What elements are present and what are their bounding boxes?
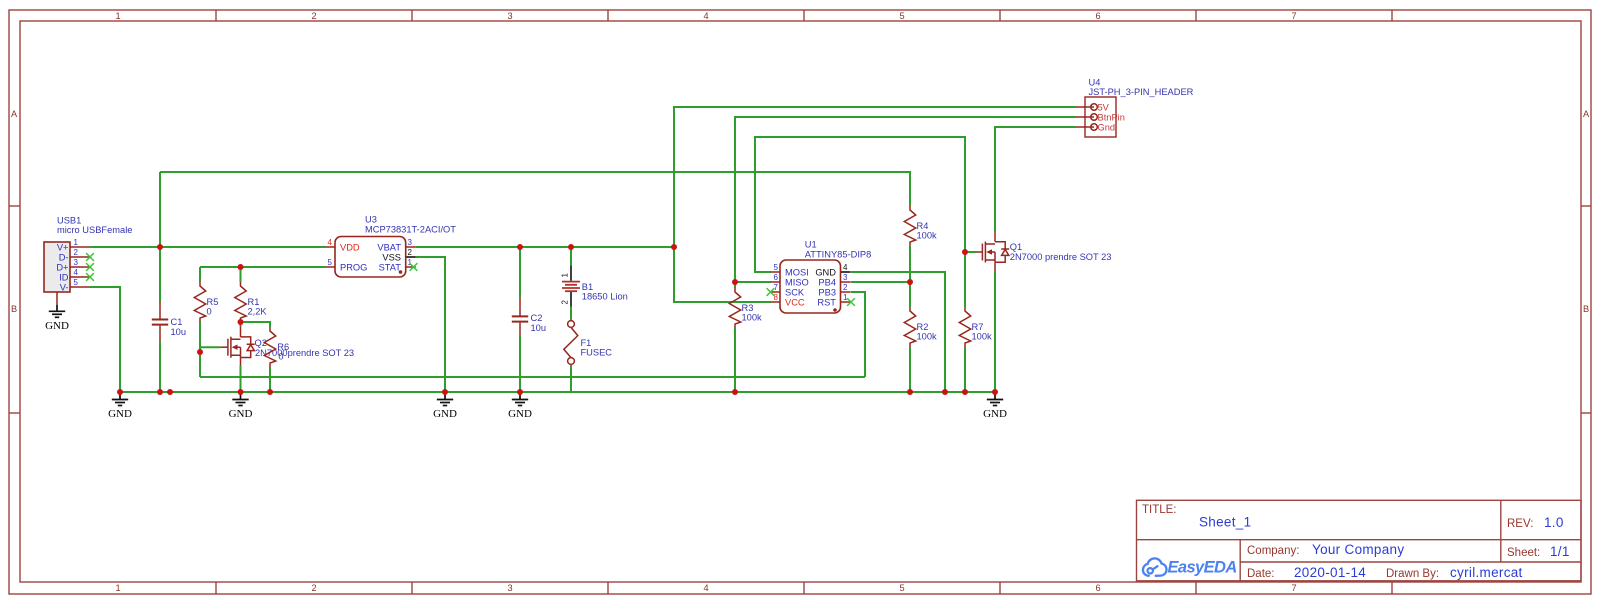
junction Q2 gate node — [197, 349, 203, 355]
ground bus x445 — [433, 393, 457, 421]
svg-text:1: 1 — [843, 293, 848, 302]
column ticks bottom — [216, 582, 1392, 594]
junction bus x945 — [942, 389, 948, 395]
column ticks top — [216, 10, 1392, 21]
svg-text:2: 2 — [74, 248, 79, 257]
svg-text:1: 1 — [561, 273, 570, 278]
junction Q1 gate node — [962, 249, 968, 255]
no-connect USB pin 2 — [86, 253, 94, 261]
junction bus x270 — [267, 389, 273, 395]
wire 5V rail U4 — [674, 107, 1076, 302]
no-connect USB pin 3 — [86, 263, 94, 271]
resistor R1 — [235, 282, 268, 322]
svg-text:U1: U1 — [805, 240, 817, 250]
svg-text:Your Company: Your Company — [1312, 542, 1404, 557]
resistor R4 — [904, 206, 937, 246]
wire R3 bottom to ground bus — [734, 328, 736, 392]
svg-text:TITLE:: TITLE: — [1142, 504, 1177, 516]
svg-text:B1: B1 — [582, 282, 593, 292]
svg-text:R5: R5 — [207, 297, 219, 307]
svg-text:1: 1 — [115, 11, 120, 21]
svg-text:MCP73831T-2ACI/OT: MCP73831T-2ACI/OT — [365, 225, 456, 235]
junction C1 top — [157, 244, 163, 250]
wire USB V- to ground bus — [90, 287, 120, 392]
resistor R7 — [959, 307, 992, 347]
title block texts — [1142, 504, 1570, 580]
svg-text:PROG: PROG — [340, 263, 367, 273]
junction bus x170 — [167, 389, 173, 395]
wire R4 bottom to R2 top — [909, 246, 911, 307]
wire Gnd rail U4 to Q1 drain — [995, 127, 1076, 232]
wire R5 top — [199, 267, 201, 282]
wire Q1 source to ground bus — [994, 271, 996, 392]
svg-text:5: 5 — [74, 278, 79, 287]
junction C2 top — [517, 244, 523, 250]
junction bus x120 — [117, 389, 123, 395]
svg-text:2: 2 — [311, 583, 316, 593]
svg-text:7: 7 — [1291, 11, 1296, 21]
junction dots — [117, 244, 998, 395]
svg-text:7: 7 — [774, 283, 779, 292]
wire R5 bottom to y377 — [199, 322, 201, 377]
svg-text:R3: R3 — [742, 303, 754, 313]
svg-text:U3: U3 — [365, 215, 377, 225]
svg-text:SCK: SCK — [785, 288, 805, 298]
svg-text:3: 3 — [507, 583, 512, 593]
svg-text:4: 4 — [703, 11, 708, 21]
junction bus x240 — [238, 389, 244, 395]
wire C1 column — [159, 172, 161, 302]
svg-text:F1: F1 — [581, 338, 592, 348]
svg-text:2: 2 — [561, 300, 570, 305]
wire VBAT rail — [416, 246, 674, 248]
svg-text:A: A — [1583, 109, 1590, 119]
junction bus x910 — [907, 389, 913, 395]
svg-text:100k: 100k — [742, 313, 763, 323]
wire B1 top — [570, 247, 572, 265]
svg-text:Drawn By:: Drawn By: — [1386, 568, 1439, 580]
svg-text:B: B — [1583, 304, 1589, 314]
title block grid — [1137, 500, 1582, 581]
resistor R5 — [194, 282, 218, 322]
junction bus x445 — [442, 389, 448, 395]
svg-text:100k: 100k — [972, 332, 993, 342]
junction Q2 drain node — [238, 319, 244, 325]
svg-text:JST-PH_3-PIN_HEADER: JST-PH_3-PIN_HEADER — [1089, 87, 1194, 97]
transistor Q2 — [220, 327, 354, 366]
junction R3-MISO node — [732, 279, 738, 285]
svg-text:R6: R6 — [277, 342, 289, 352]
svg-text:2: 2 — [408, 248, 413, 257]
wire F1 to ground bus — [570, 366, 572, 392]
wire R7 bottom to ground bus — [964, 347, 966, 392]
junction bus x520 — [517, 389, 523, 395]
ground bus x120 — [108, 393, 132, 421]
wire R1 top — [240, 267, 242, 282]
svg-text:USB1: USB1 — [57, 216, 81, 226]
svg-text:micro USBFemale: micro USBFemale — [57, 225, 132, 235]
wire C2 top — [519, 247, 521, 297]
svg-text:5: 5 — [899, 11, 904, 21]
svg-text:V+: V+ — [57, 243, 69, 253]
svg-text:0: 0 — [207, 307, 212, 317]
svg-text:VBAT: VBAT — [377, 243, 401, 253]
wire Q1 gate tap — [965, 251, 977, 253]
junction bus x160 — [157, 389, 163, 395]
wire R2 bottom to ground bus — [909, 347, 911, 392]
svg-text:1: 1 — [115, 583, 120, 593]
svg-text:VDD: VDD — [340, 243, 360, 253]
column numbers top — [115, 11, 1296, 21]
wire V+ rail USB to VDD — [90, 246, 325, 248]
svg-text:5V: 5V — [1098, 103, 1110, 113]
svg-text:100k: 100k — [917, 332, 938, 342]
wire BtnPin rail U4 — [735, 117, 1076, 288]
junction bus x735 — [732, 389, 738, 395]
resistor R6 — [264, 327, 289, 367]
wire ground bus — [120, 391, 995, 393]
svg-text:R4: R4 — [917, 221, 929, 231]
svg-text:0: 0 — [278, 352, 283, 362]
battery B1 — [561, 265, 628, 306]
svg-text:EasyEDA: EasyEDA — [1168, 559, 1237, 577]
capacitor C1 — [152, 302, 186, 342]
svg-text:V-: V- — [60, 283, 69, 293]
svg-text:C1: C1 — [171, 317, 183, 327]
svg-text:ATTINY85-DIP8: ATTINY85-DIP8 — [805, 250, 871, 260]
svg-text:R2: R2 — [917, 322, 929, 332]
svg-text:4: 4 — [74, 268, 79, 277]
svg-text:Gnd: Gnd — [1098, 123, 1116, 133]
svg-text:6: 6 — [1095, 583, 1100, 593]
junction bus x995 — [992, 389, 998, 395]
svg-text:Company:: Company: — [1247, 545, 1299, 557]
wire R1 bottom node to Q2 drain — [240, 322, 242, 327]
svg-text:cyril.mercat: cyril.mercat — [1450, 565, 1523, 580]
svg-text:2N7000 prendre SOT 23: 2N7000 prendre SOT 23 — [1010, 252, 1112, 262]
svg-text:10u: 10u — [531, 323, 547, 333]
no-connect U3 STAT — [410, 263, 418, 271]
svg-text:3: 3 — [74, 258, 79, 267]
svg-text:5: 5 — [328, 258, 333, 267]
wire VSS down — [416, 257, 445, 392]
svg-text:PB4: PB4 — [818, 278, 836, 288]
no-connect USB pin 4 — [86, 273, 94, 281]
svg-text:8: 8 — [774, 293, 779, 302]
wire C2 bottom — [519, 336, 521, 392]
svg-text:3: 3 — [843, 273, 848, 282]
IC U1 ATTINY85 — [771, 240, 872, 314]
ground bus x520 — [508, 393, 532, 421]
row letters — [11, 109, 1590, 314]
svg-text:100k: 100k — [917, 231, 938, 241]
no-connect U1 RST — [847, 298, 855, 306]
svg-text:STAT: STAT — [379, 263, 402, 273]
svg-text:1.0: 1.0 — [1544, 515, 1564, 530]
svg-text:5: 5 — [774, 263, 779, 272]
junction 5V-VBAT-VCC — [671, 244, 677, 250]
svg-text:Sheet:: Sheet: — [1507, 547, 1540, 559]
svg-text:C2: C2 — [531, 313, 543, 323]
capacitor C2 — [512, 297, 546, 336]
header U4 JST-PH 3 pin — [1076, 78, 1194, 138]
wire Q2 gate tap — [200, 346, 220, 348]
connector USB1 micro USBFemale — [44, 216, 132, 305]
ground bus x995 — [983, 393, 1007, 421]
wire R6 bottom to ground bus — [269, 367, 271, 392]
svg-text:U4: U4 — [1089, 78, 1101, 88]
row ticks — [9, 206, 1591, 413]
svg-text:2: 2 — [311, 11, 316, 21]
svg-text:GND: GND — [815, 268, 836, 278]
svg-text:2020-01-14: 2020-01-14 — [1294, 565, 1366, 580]
svg-text:VSS: VSS — [382, 253, 401, 263]
svg-text:ID: ID — [59, 273, 69, 283]
no-connect U1 SCK — [767, 288, 775, 296]
fuse F1 — [564, 319, 612, 367]
junction R1 top — [238, 264, 244, 270]
wire node to R6 top — [241, 322, 271, 327]
svg-text:Q1: Q1 — [1010, 242, 1022, 252]
wire PB4 to R4-R2 node — [851, 281, 910, 283]
svg-text:4: 4 — [843, 263, 848, 272]
svg-text:RST: RST — [817, 298, 836, 308]
junction R4-R2-PB4 node — [907, 279, 913, 285]
svg-text:4: 4 — [328, 238, 333, 247]
svg-text:B: B — [11, 304, 17, 314]
svg-text:4: 4 — [703, 583, 708, 593]
svg-text:1/1: 1/1 — [1550, 544, 1570, 559]
wire U1 GND pin to ground bus — [851, 272, 945, 392]
svg-text:MOSI: MOSI — [785, 268, 809, 278]
svg-text:R7: R7 — [972, 322, 984, 332]
svg-text:Date:: Date: — [1247, 568, 1275, 580]
svg-text:3: 3 — [507, 11, 512, 21]
svg-text:MISO: MISO — [785, 278, 809, 288]
wire MOSI rail to R7 column — [755, 137, 965, 307]
svg-text:R1: R1 — [248, 297, 260, 307]
svg-text:3: 3 — [408, 238, 413, 247]
svg-text:Sheet_1: Sheet_1 — [1199, 515, 1251, 530]
junction B1 top — [568, 244, 574, 250]
svg-text:2,2K: 2,2K — [248, 307, 268, 317]
svg-text:7: 7 — [1291, 583, 1296, 593]
wire net y377 R5 to PB3 — [200, 376, 865, 378]
svg-text:D-: D- — [59, 253, 69, 263]
svg-text:FUSEC: FUSEC — [581, 348, 613, 358]
ground bus x240 — [229, 393, 253, 421]
svg-text:10u: 10u — [171, 327, 187, 337]
transistor Q1 — [977, 232, 1112, 271]
wire B1 to F1 — [570, 307, 572, 319]
svg-text:1: 1 — [74, 238, 79, 247]
wire top rail to R4 — [160, 172, 910, 206]
resistor R2 — [904, 307, 937, 347]
svg-text:REV:: REV: — [1507, 518, 1533, 530]
wire MISO from R3 node — [735, 281, 771, 283]
wire C1 bottom — [159, 342, 161, 392]
svg-text:6: 6 — [1095, 11, 1100, 21]
svg-text:VCC: VCC — [785, 298, 805, 308]
IC U3 MCP73831 — [325, 215, 456, 278]
svg-text:D+: D+ — [56, 263, 68, 273]
EasyEDA logo — [1143, 558, 1237, 576]
ground USB shell — [45, 304, 69, 332]
wire PROG rail — [200, 266, 325, 268]
svg-text:6: 6 — [774, 273, 779, 282]
svg-text:2: 2 — [843, 283, 848, 292]
svg-text:A: A — [11, 109, 18, 119]
svg-text:18650 Lion: 18650 Lion — [582, 292, 628, 302]
svg-text:BtnPin: BtnPin — [1098, 113, 1125, 123]
svg-text:5: 5 — [899, 583, 904, 593]
resistor R3 — [729, 288, 762, 328]
svg-text:PB3: PB3 — [818, 288, 836, 298]
wire Q2 source to ground bus — [240, 366, 242, 393]
junction bus x965 — [962, 389, 968, 395]
column numbers bottom — [115, 583, 1296, 593]
wire PB3 down loop — [851, 292, 865, 377]
